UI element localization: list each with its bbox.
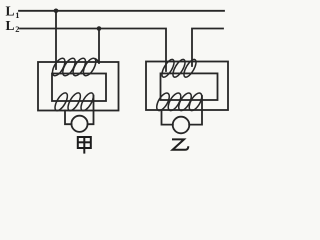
svg-text:L: L [6, 18, 15, 33]
svg-text:2: 2 [15, 24, 19, 34]
svg-text:1: 1 [15, 10, 19, 20]
svg-text:L: L [6, 3, 15, 18]
